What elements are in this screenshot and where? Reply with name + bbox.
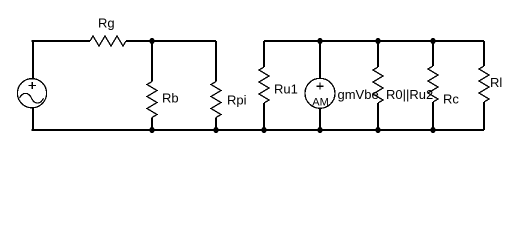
junction node: R0||Ru2 top [375,38,380,44]
resistor Rc [428,41,459,130]
wire: block1 top rail right segment [126,40,216,42]
junction node: gmVbe bottom [317,127,322,133]
svg-text:Rl: Rl [490,75,502,90]
junction node: Rpi bottom [213,127,218,133]
wire: bottom rail [32,129,485,131]
svg-text:AM: AM [312,97,329,109]
resistor Ru1 [259,41,298,130]
svg-text:gmVbe: gmVbe [338,87,379,102]
svg-text:Rc: Rc [443,92,459,107]
resistor Rb [147,41,179,130]
junction node: Rb bottom [149,127,154,133]
svg-text:Rg: Rg [98,16,115,31]
svg-text:Rpi: Rpi [227,92,247,107]
svg-text:R0||Ru2: R0||Ru2 [386,87,433,102]
junction node: R0||Ru2 bottom [375,127,380,133]
wire: block2 top rail [264,40,484,42]
resistor Rg [90,16,126,47]
resistor R0||Ru2 [373,41,433,130]
junction node: Ru1 bottom [261,127,266,133]
voltage source V1 [17,41,46,130]
current source gmVbe [305,41,379,130]
junction node: Rc top [430,38,435,44]
junction node: Rc bottom [430,127,435,133]
svg-text:Ru1: Ru1 [274,82,298,97]
junction node: Rb top [149,38,154,44]
resistor Rpi [211,41,247,130]
wire: block1 top rail left segment [32,40,91,42]
junction node: gmVbe top [317,38,322,44]
svg-text:Rb: Rb [162,90,179,105]
resistor Rl [479,41,502,130]
